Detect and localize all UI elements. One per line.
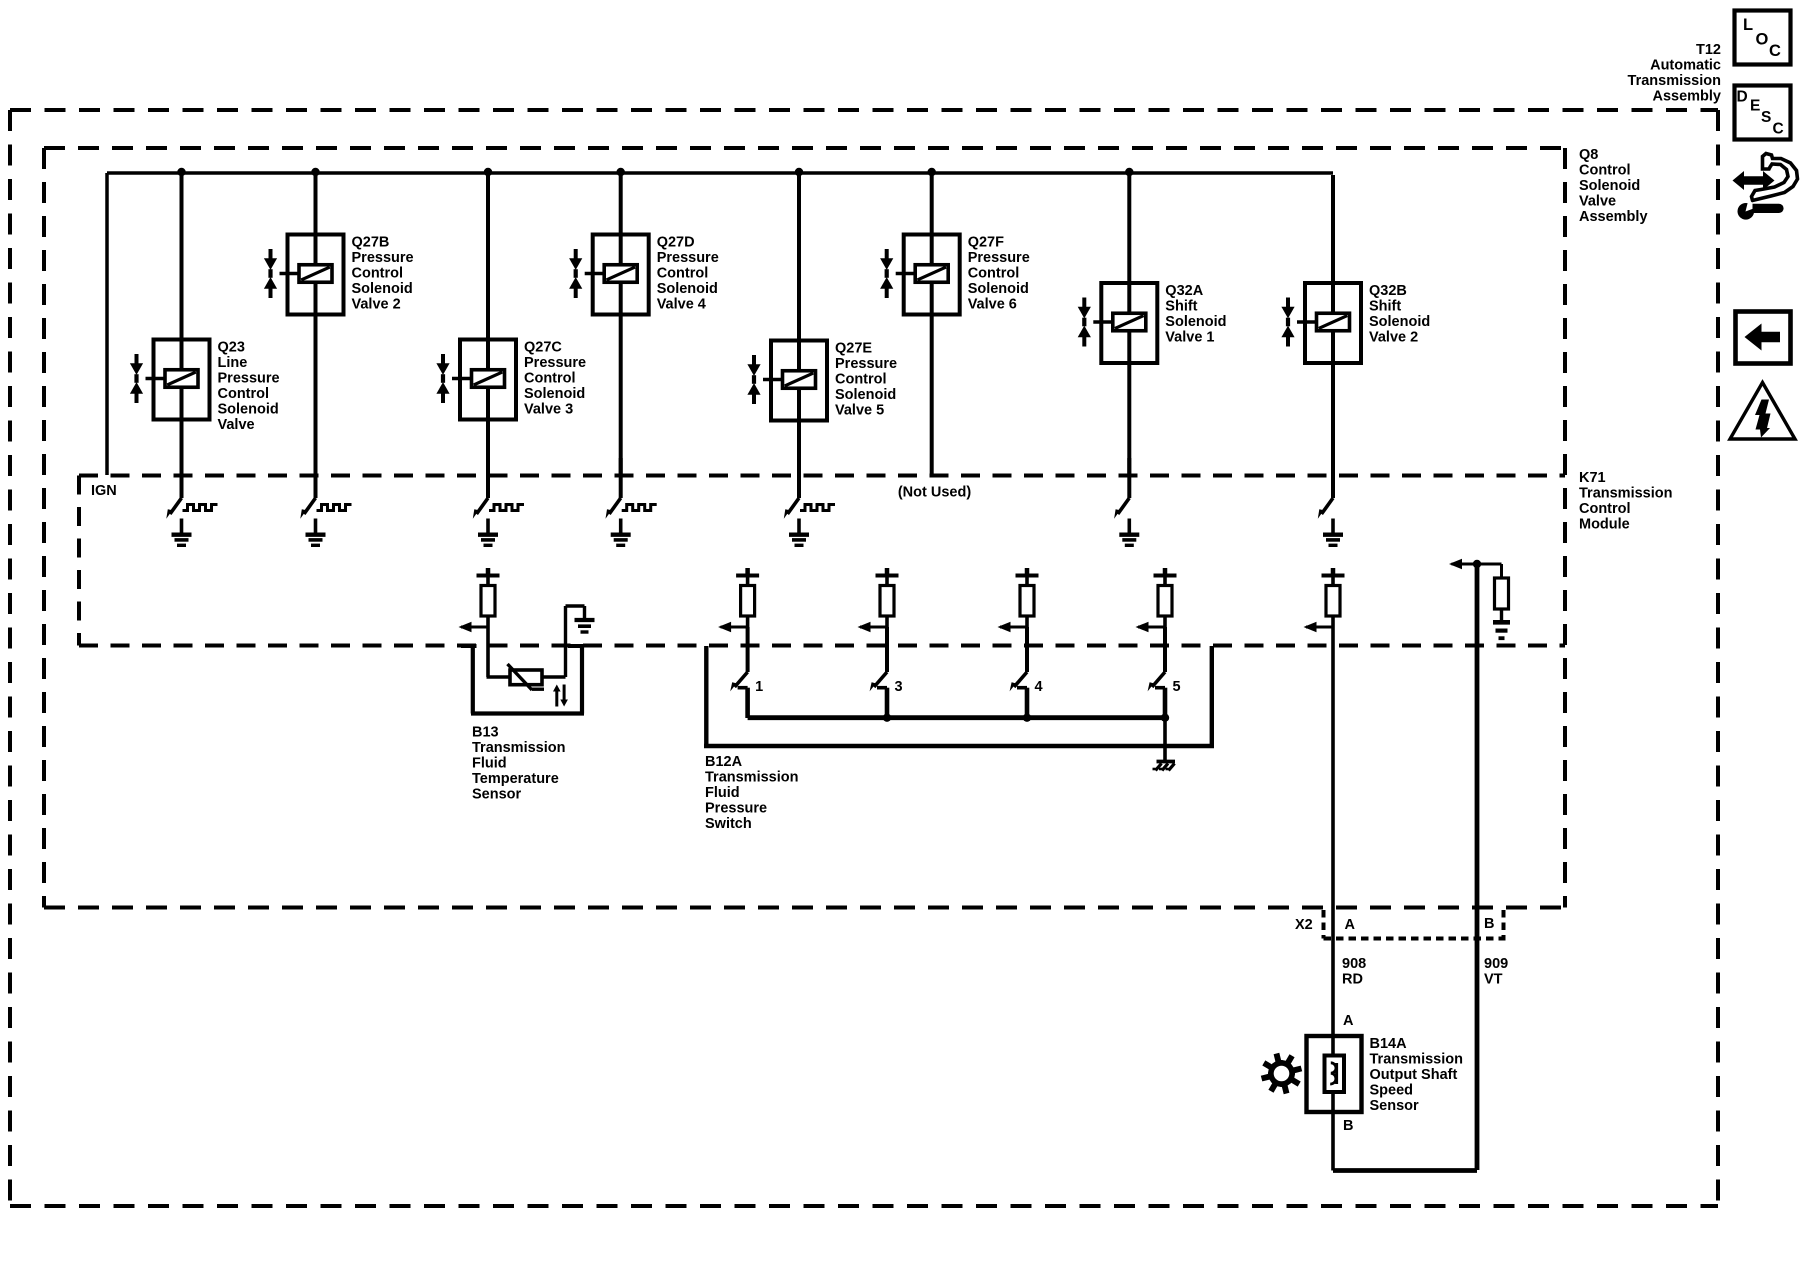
wire through solenoid Q27B body — [314, 235, 318, 315]
pressure switch common bus — [748, 715, 1165, 720]
svg-text:Solenoid: Solenoid — [968, 281, 1029, 297]
switch blade — [304, 498, 316, 514]
svg-text:Control: Control — [1579, 163, 1631, 179]
wire thermistor to ground return — [542, 675, 566, 678]
solenoid Q32B outer box — [1305, 283, 1361, 363]
svg-text:909: 909 — [1484, 956, 1508, 972]
svg-text:Solenoid: Solenoid — [1369, 314, 1430, 330]
terminal tick — [1163, 569, 1167, 574]
gear icon — [1261, 1053, 1302, 1094]
ground (TCM internal) — [1493, 620, 1510, 625]
wire from solenoid Q32A down to TCM — [1127, 363, 1131, 477]
solenoid Q27C outer box — [460, 340, 516, 420]
ground symbol — [172, 533, 192, 537]
svg-text:Solenoid: Solenoid — [352, 281, 413, 297]
svg-text:5: 5 — [1173, 679, 1181, 695]
svg-text:Valve 3: Valve 3 — [524, 402, 573, 418]
solenoid Q27C coil element (slashed rect) — [472, 370, 505, 388]
wire switch 5 to common bus — [1163, 688, 1168, 718]
icon: back arrow box — [1736, 312, 1791, 364]
svg-text:Temperature: Temperature — [472, 771, 559, 787]
signal arrow (to TCM logic) — [860, 626, 887, 629]
junction node on 909 wire — [1473, 560, 1481, 568]
svg-text:Pressure: Pressure — [968, 250, 1030, 266]
svg-text:Q27B: Q27B — [352, 235, 390, 251]
bus junction node at Q27C branch — [484, 168, 492, 176]
svg-text:Control: Control — [218, 386, 270, 402]
wire from solenoid Q27D down to TCM — [619, 315, 623, 478]
svg-text:A: A — [1343, 1013, 1354, 1029]
wire: feed from bus into solenoid Q23 — [180, 175, 184, 342]
wire from solenoid Q23 down to TCM — [180, 420, 184, 478]
wire tick to resistor — [1025, 578, 1029, 587]
svg-text:Switch: Switch — [705, 816, 752, 832]
wire from solenoid Q32B down to TCM — [1331, 363, 1335, 477]
svg-text:Valve 5: Valve 5 — [835, 403, 884, 419]
svg-text:Transmission: Transmission — [1370, 1052, 1463, 1068]
B14A sensor box — [1307, 1036, 1362, 1112]
svg-text:Q27D: Q27D — [657, 235, 695, 251]
svg-text:Q27C: Q27C — [524, 340, 562, 356]
wire resistor to junction — [885, 616, 889, 628]
signal arrow (to TCM logic) — [1000, 626, 1027, 629]
svg-text:Transmission: Transmission — [472, 740, 565, 756]
svg-text:A: A — [1345, 917, 1356, 933]
wire to pressure switch 5 — [1163, 627, 1167, 672]
svg-text:Solenoid: Solenoid — [218, 402, 279, 418]
wire tick to resistor — [885, 578, 889, 587]
svg-text:Q23: Q23 — [218, 340, 245, 356]
wire through solenoid Q23 body — [180, 340, 184, 420]
wire through solenoid Q32A body — [1127, 283, 1131, 363]
bus junction node at Q23 branch — [177, 168, 185, 176]
check valve symbol left of Q27F — [885, 249, 889, 259]
solenoid Q23 outer box — [154, 340, 210, 420]
wire from solenoid Q27C down to TCM — [486, 420, 490, 478]
svg-text:O: O — [1756, 31, 1769, 49]
solenoid Q27B outer box — [288, 235, 344, 315]
wire through sensor — [1331, 1036, 1335, 1112]
solenoid Q32A coil element (slashed rect) — [1113, 313, 1146, 331]
svg-text:Control: Control — [1579, 501, 1631, 517]
sensor element box — [1325, 1056, 1345, 1093]
svg-text:Fluid: Fluid — [472, 756, 507, 772]
svg-text:Valve 2: Valve 2 — [352, 297, 401, 313]
wire into TCM driver switch — [486, 458, 490, 498]
svg-text:Solenoid: Solenoid — [1579, 178, 1640, 194]
switch 4 contact — [1017, 686, 1027, 690]
solenoid Q27D coil element (slashed rect) — [604, 265, 637, 283]
bus junction node at Q27D branch — [617, 168, 625, 176]
svg-text:Automatic: Automatic — [1650, 58, 1721, 74]
svg-text:RD: RD — [1342, 972, 1363, 988]
chassis ground symbol — [1157, 760, 1176, 764]
svg-text:Shift: Shift — [1369, 299, 1401, 315]
svg-text:IGN: IGN — [91, 483, 117, 499]
terminal tick — [746, 569, 750, 574]
ground for B13 return (TCM internal) — [575, 618, 595, 622]
PWM square-wave mark — [183, 505, 218, 511]
check valve symbol left of Q23 — [135, 354, 139, 364]
svg-text:Solenoid: Solenoid — [835, 387, 896, 403]
wire B13 signal into sensor — [486, 628, 490, 677]
signal arrow (to TCM logic) — [721, 626, 748, 629]
switch blade — [609, 498, 621, 514]
svg-text:Solenoid: Solenoid — [1165, 314, 1226, 330]
thermistor element — [510, 670, 542, 685]
svg-text:Pressure: Pressure — [657, 250, 719, 266]
check valve symbol left of Q27C — [441, 354, 445, 364]
wire to pressure switch 1 — [746, 627, 750, 672]
svg-text:Pressure: Pressure — [218, 371, 280, 387]
junction node on switch common bus — [883, 714, 891, 722]
stub from check valve into Q27C coil — [452, 377, 473, 381]
svg-text:S: S — [1761, 109, 1771, 126]
svg-text:Q27E: Q27E — [835, 341, 872, 357]
wire to pressure switch 4 — [1025, 627, 1029, 672]
wire into TCM driver switch — [797, 458, 801, 498]
wire resistor to junction — [486, 616, 490, 628]
svg-text:Pressure: Pressure — [352, 250, 414, 266]
stub from check valve into Q27E coil — [763, 378, 784, 382]
svg-text:Assembly: Assembly — [1652, 89, 1721, 105]
svg-text:Q32B: Q32B — [1369, 283, 1407, 299]
wire common bus to chassis ground — [1163, 718, 1167, 760]
wire: feed from bus into solenoid Q27C — [486, 175, 490, 342]
svg-text:Transmission: Transmission — [1628, 73, 1721, 89]
ground stub — [797, 519, 801, 535]
ground stub — [619, 519, 623, 535]
svg-text:1: 1 — [755, 679, 763, 695]
ground symbol — [611, 533, 631, 537]
wire into TCM driver switch — [619, 458, 623, 498]
resistor — [741, 586, 755, 617]
wire into TCM driver switch — [314, 458, 318, 498]
svg-text:(Not Used): (Not Used) — [898, 485, 971, 501]
wire: feed from bus into solenoid Q32B — [1331, 175, 1335, 285]
wire through solenoid Q27E body — [797, 341, 801, 421]
OSS low reference: signal arrow — [1452, 563, 1502, 566]
svg-text:Valve: Valve — [1579, 194, 1616, 210]
wire tick to resistor — [486, 578, 490, 587]
stub from check valve into Q32B coil — [1297, 320, 1318, 324]
terminal tick — [486, 569, 490, 574]
resistor — [1158, 586, 1172, 617]
pressure switch 5 blade — [1152, 672, 1165, 687]
svg-text:K71: K71 — [1579, 470, 1606, 486]
PWM square-wave mark — [489, 505, 524, 511]
svg-text:Valve 2: Valve 2 — [1369, 330, 1418, 346]
wire: feed from bus into solenoid Q27E — [797, 175, 801, 343]
wire through solenoid Q27D body — [619, 235, 623, 315]
svg-text:T12: T12 — [1696, 42, 1721, 58]
svg-text:Sensor: Sensor — [1370, 1098, 1420, 1114]
wire tick to resistor — [1331, 578, 1335, 587]
solenoid Q27F coil element (slashed rect) — [915, 265, 948, 283]
icon DESC box — [1735, 86, 1791, 140]
signal arrow (to TCM logic) — [1138, 626, 1165, 629]
stub from check valve into Q27F coil — [896, 272, 917, 276]
B13 enclosure — [461, 646, 584, 714]
switch 5 contact — [1155, 686, 1165, 690]
svg-text:Control: Control — [657, 266, 709, 282]
svg-text:B: B — [1484, 916, 1494, 932]
svg-text:C: C — [1769, 42, 1781, 60]
svg-text:Control: Control — [352, 266, 404, 282]
svg-text:Valve: Valve — [218, 417, 255, 433]
svg-text:908: 908 — [1342, 956, 1366, 972]
wire into TCM driver switch — [180, 458, 184, 498]
wire from solenoid Q27F down to TCM — [930, 315, 934, 478]
solenoid Q32B coil element (slashed rect) — [1317, 313, 1350, 331]
svg-text:Control: Control — [968, 266, 1020, 282]
check valve symbol left of Q27B — [269, 249, 273, 259]
svg-text:Solenoid: Solenoid — [657, 281, 718, 297]
switch 3 contact — [877, 686, 887, 690]
wire into TCM driver switch — [1127, 458, 1131, 498]
PWM square-wave mark — [317, 505, 352, 511]
svg-text:Valve 4: Valve 4 — [657, 297, 706, 313]
wire switch 3 to common bus — [885, 688, 890, 718]
svg-text:Valve 6: Valve 6 — [968, 297, 1017, 313]
terminal tick — [1331, 569, 1335, 574]
svg-text:Pressure: Pressure — [835, 356, 897, 372]
wire switch 4 to common bus — [1025, 688, 1030, 718]
ground symbol — [306, 533, 326, 537]
svg-text:Control: Control — [835, 372, 887, 388]
wire tick to resistor — [746, 578, 750, 587]
ground symbol — [478, 533, 498, 537]
svg-text:Control: Control — [524, 371, 576, 387]
svg-text:Transmission: Transmission — [705, 770, 798, 786]
svg-text:C: C — [1773, 121, 1784, 138]
svg-text:Pressure: Pressure — [705, 801, 767, 817]
svg-text:Output Shaft: Output Shaft — [1370, 1067, 1458, 1083]
svg-text:Module: Module — [1579, 517, 1630, 533]
svg-text:Q27F: Q27F — [968, 235, 1004, 251]
variability arrows — [555, 688, 558, 707]
wire switch 1 to common bus — [745, 688, 750, 718]
resistor — [880, 586, 894, 617]
bus junction node at Q27B branch — [311, 168, 319, 176]
resistor — [1020, 586, 1034, 617]
stub from check valve into Q23 coil — [146, 377, 167, 381]
wire: feed from bus into solenoid Q27D — [619, 175, 623, 237]
svg-text:Fluid: Fluid — [705, 785, 740, 801]
pressure switch 1 blade — [735, 672, 748, 687]
solenoid Q27D outer box — [593, 235, 649, 315]
svg-text:B: B — [1343, 1118, 1353, 1134]
svg-text:D: D — [1737, 89, 1748, 106]
switch blade — [1118, 498, 1130, 514]
IGN feed bus wire — [107, 171, 1333, 175]
check valve symbol left of Q32A — [1082, 298, 1086, 308]
wire tick to resistor — [1163, 578, 1167, 587]
svg-text:VT: VT — [1484, 972, 1503, 988]
solenoid Q27F outer box — [904, 235, 960, 315]
wire 908 RD from TCM to OSS pin A — [1331, 628, 1335, 1036]
signal arrow (to TCM logic) — [1306, 626, 1333, 629]
ground symbol — [1119, 533, 1139, 537]
wire into TCM driver switch — [1331, 458, 1335, 498]
stub from check valve into Q32A coil — [1093, 320, 1114, 324]
svg-text:Transmission: Transmission — [1579, 486, 1672, 502]
bus junction node at Q27F branch — [928, 168, 936, 176]
solenoid Q32A outer box — [1101, 283, 1157, 363]
bus junction node at Q27E branch — [795, 168, 803, 176]
B12A enclosure — [704, 646, 1214, 746]
PWM square-wave mark — [622, 505, 657, 511]
junction node on switch common bus — [1023, 714, 1031, 722]
pickup element — [1335, 1063, 1338, 1084]
wire: feed from bus into solenoid Q27B — [314, 175, 318, 237]
svg-text:B14A: B14A — [1370, 1036, 1408, 1052]
check valve symbol left of Q27E — [752, 355, 756, 365]
ground stub — [1128, 519, 1132, 535]
K71 Transmission Control Module dashed box — [79, 476, 1565, 646]
signal arrow (to TCM logic) — [461, 626, 488, 629]
pressure switch 4 blade — [1014, 672, 1027, 687]
switch blade — [477, 498, 489, 514]
wire 909 VT from TCM to OSS pin B — [1475, 564, 1480, 1170]
svg-text:Q32A: Q32A — [1165, 283, 1203, 299]
svg-text:X2: X2 — [1295, 917, 1313, 933]
check valve symbol left of Q27D — [574, 249, 578, 259]
solenoid Q27B coil element (slashed rect) — [299, 265, 332, 283]
switch 1 contact — [738, 686, 748, 690]
ground stub — [486, 519, 490, 535]
wire through solenoid Q27C body — [486, 340, 490, 420]
svg-text:Q8: Q8 — [1579, 147, 1598, 163]
svg-text:Line: Line — [218, 355, 248, 371]
svg-text:E: E — [1750, 98, 1760, 115]
ground symbol — [789, 533, 809, 537]
ground stub — [180, 519, 184, 535]
ground stub — [314, 519, 318, 535]
svg-text:Sensor: Sensor — [472, 787, 522, 803]
wire B14A pin B loop — [1331, 1112, 1335, 1171]
wire through solenoid Q27F body — [930, 235, 934, 315]
wire resistor to ground — [1500, 609, 1503, 620]
solenoid Q27E coil element (slashed rect) — [783, 371, 816, 389]
IGN wire drop to TCM — [105, 173, 109, 475]
wire to pressure switch 3 — [885, 627, 889, 672]
solenoid Q27E outer box — [771, 341, 827, 421]
Q8 Control Solenoid Valve Assembly dashed box — [44, 148, 1565, 908]
svg-text:Speed: Speed — [1370, 1083, 1414, 1099]
wire corner down to bias resistor — [1500, 564, 1503, 579]
icon: component view (arrow + wrench) — [1733, 154, 1798, 220]
terminal tick — [885, 569, 889, 574]
terminal tick — [1025, 569, 1029, 574]
resistor — [1326, 586, 1340, 617]
wire: feed from bus into solenoid Q32A — [1127, 175, 1131, 285]
stub from check valve into Q27B coil — [280, 272, 301, 276]
svg-text:4: 4 — [1035, 679, 1043, 695]
ground symbol — [1323, 533, 1343, 537]
svg-text:Shift: Shift — [1165, 299, 1197, 315]
bias resistor — [1495, 578, 1509, 609]
wire: feed from bus into solenoid Q27F — [930, 175, 934, 237]
resistor — [481, 586, 495, 617]
stub from check valve into Q27D coil — [585, 272, 606, 276]
svg-text:3: 3 — [895, 679, 903, 695]
pressure switch 3 blade — [874, 672, 887, 687]
svg-text:L: L — [1743, 16, 1753, 34]
wire into thermistor — [487, 675, 511, 678]
wire resistor to junction — [746, 616, 750, 628]
icon LOC box — [1735, 11, 1791, 65]
switch blade — [170, 498, 182, 514]
svg-text:Assembly: Assembly — [1579, 209, 1648, 225]
bus junction node at Q32A branch — [1125, 168, 1133, 176]
solenoid Q23 coil element (slashed rect) — [165, 370, 198, 388]
PWM square-wave mark — [800, 505, 835, 511]
wire resistor to junction — [1025, 616, 1029, 628]
switch blade — [1322, 498, 1334, 514]
check valve symbol left of Q32B — [1286, 298, 1290, 308]
svg-text:B13: B13 — [472, 725, 499, 741]
svg-text:B12A: B12A — [705, 754, 743, 770]
connector X2 dashed outline — [1324, 910, 1506, 939]
wire through solenoid Q32B body — [1331, 283, 1335, 363]
ground stub — [1331, 519, 1335, 535]
wire from solenoid Q27B down to TCM — [314, 315, 318, 478]
svg-text:Solenoid: Solenoid — [524, 386, 585, 402]
icon: warning triangle with lightning bolt — [1730, 383, 1795, 440]
junction node on switch common bus — [1161, 714, 1169, 722]
switch blade — [788, 498, 800, 514]
svg-text:Valve 1: Valve 1 — [1165, 330, 1214, 346]
wire from solenoid Q27E down to TCM — [797, 421, 801, 478]
wire resistor to junction — [1163, 616, 1167, 628]
svg-text:Pressure: Pressure — [524, 355, 586, 371]
wire resistor to junction — [1331, 616, 1335, 628]
